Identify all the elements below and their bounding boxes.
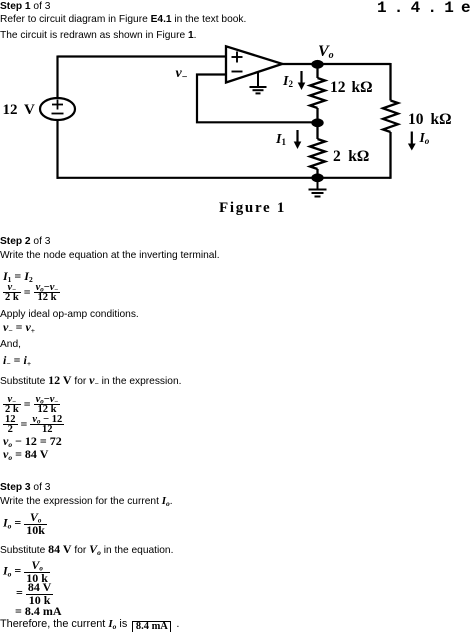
current arrow I2 [298, 71, 306, 90]
step 1 text [0, 1, 50, 12]
ground op-amp [250, 73, 267, 94]
resistor R2 12k [310, 64, 325, 122]
resistor R1 2k [310, 123, 325, 178]
caption Figure 1 [219, 200, 286, 217]
circuit schematic svg [0, 0, 474, 230]
label 12 V [3, 102, 35, 119]
ground bottom [309, 180, 327, 197]
wire output rail [282, 63, 390, 65]
label I2 [283, 74, 293, 90]
current arrow Io [408, 132, 416, 151]
current arrow I1 [294, 130, 302, 149]
label v- [176, 66, 188, 82]
wire left vertical top [56, 56, 58, 99]
node between resistors [311, 118, 323, 127]
label I1 [276, 132, 286, 148]
op-amp U1 [226, 46, 282, 82]
derivation block step 2 [3, 396, 60, 414]
header code 1.4.1e [377, 0, 474, 17]
node Vo [311, 60, 323, 69]
label 10 kOhm [408, 111, 452, 129]
node bottom [311, 173, 323, 182]
label 2 kOhm [333, 148, 369, 166]
step 2 [0, 236, 50, 247]
wire top rail [58, 55, 227, 57]
wire inverting input feedback [197, 75, 318, 123]
label 12 kOhm [330, 79, 373, 97]
voltage source V1 12V [40, 98, 75, 120]
resistor R3 10k [383, 63, 398, 179]
step 3 [0, 482, 50, 493]
label Io [420, 130, 430, 146]
wire left vertical bottom [56, 120, 58, 179]
wire bottom rail [57, 177, 391, 179]
label Vo [318, 43, 334, 61]
